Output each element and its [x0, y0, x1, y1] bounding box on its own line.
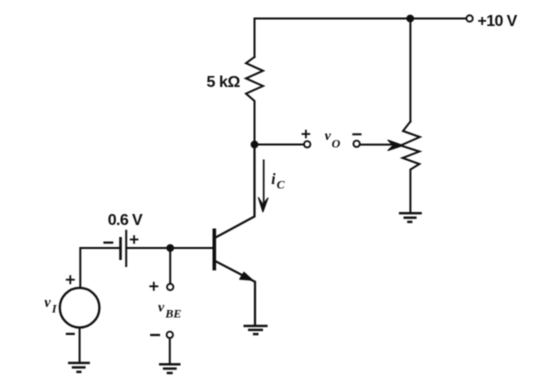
svg-text:+10 V: +10 V — [478, 13, 518, 30]
svg-text:I: I — [51, 302, 58, 316]
svg-text:v: v — [44, 295, 51, 311]
svg-text:C: C — [277, 178, 286, 192]
svg-text:0.6 V: 0.6 V — [108, 212, 143, 229]
svg-text:v: v — [158, 300, 165, 315]
svg-text:v: v — [325, 129, 332, 144]
svg-text:5 kΩ: 5 kΩ — [207, 74, 241, 91]
svg-text:i: i — [271, 171, 276, 188]
svg-text:O: O — [332, 136, 341, 150]
svg-text:BE: BE — [164, 306, 181, 320]
